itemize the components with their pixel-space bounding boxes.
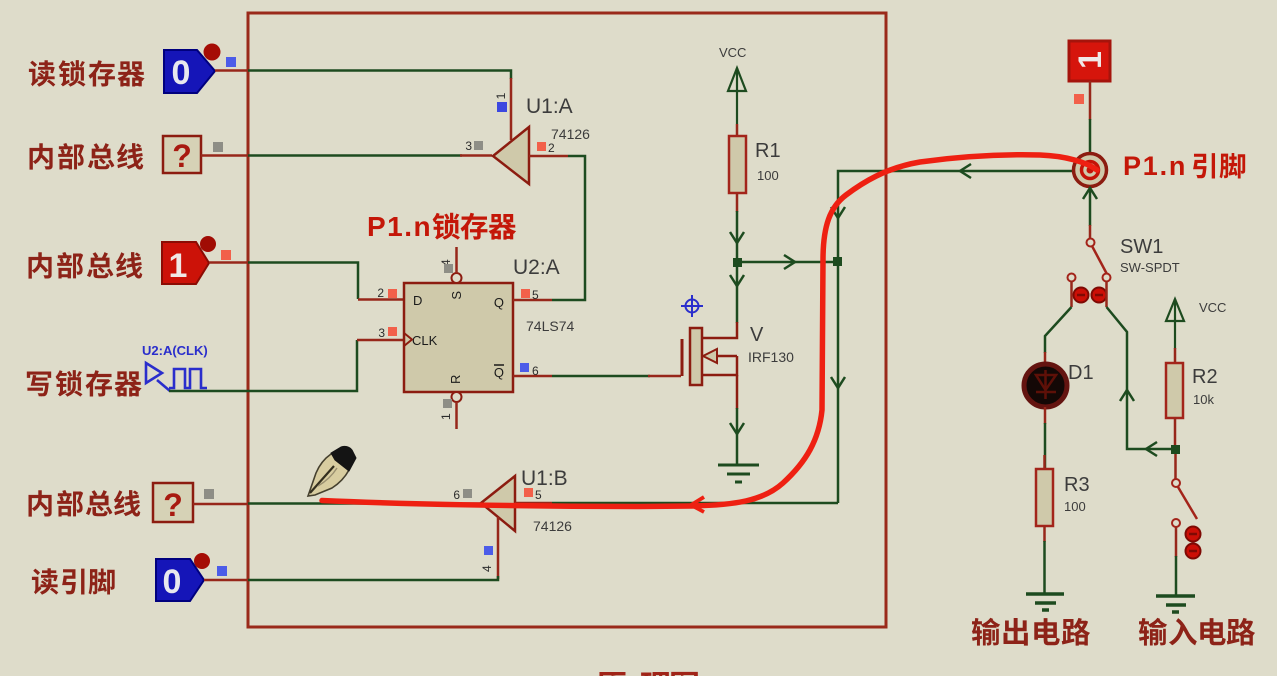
- svg-text:Q: Q: [494, 295, 504, 310]
- flow arrow left into junction: [1146, 442, 1157, 456]
- logic state source 1 (internal bus): [162, 242, 209, 285]
- wire: R3 to ground: [1043, 541, 1046, 594]
- logic state source 0 (read pin): [156, 559, 204, 601]
- red indicator dot right: [1092, 288, 1107, 303]
- svg-text:R: R: [448, 375, 463, 384]
- U2:A CLK pin stub: [357, 339, 404, 342]
- red indicator dot lower: [1186, 544, 1201, 559]
- wire: frame to U1:A input: [248, 154, 462, 157]
- body arrow line: [716, 355, 737, 358]
- label 读引脚: [32, 568, 115, 594]
- S pin stub: [455, 247, 458, 273]
- D flip-flop U2:A body: [404, 283, 513, 392]
- svg-text:100: 100: [757, 168, 779, 183]
- svg-text:P1.n: P1.n: [1123, 151, 1187, 181]
- red indicator circle: [204, 44, 221, 61]
- pin 1 gray square: [443, 399, 452, 408]
- pen cursor icon: [308, 446, 356, 496]
- SW1 pole stub: [1089, 225, 1092, 238]
- R2 top stub: [1174, 348, 1177, 363]
- U1:A enable pin stub: [510, 78, 513, 140]
- label 内部总线 (top): [29, 143, 143, 170]
- wire: U1:B input from pin line: [552, 502, 838, 505]
- wire: frame to U1:A enable corner: [248, 71, 511, 80]
- gray marker square: [204, 489, 214, 499]
- resistor R3: [1036, 469, 1053, 526]
- bus state box ? (bottom): [153, 483, 193, 523]
- svg-text:?: ?: [163, 487, 183, 523]
- wire: R1 to drain node: [736, 211, 739, 323]
- svg-text:0: 0: [172, 54, 191, 92]
- label 写锁存器: [27, 370, 142, 396]
- svg-text:U2:A(CLK): U2:A(CLK): [142, 343, 208, 358]
- wire: LED to R3: [1044, 423, 1047, 469]
- svg-text:VCC: VCC: [719, 45, 746, 60]
- wire: U1:A output down to U2:A Q: [552, 156, 585, 300]
- svg-text:3: 3: [465, 139, 472, 153]
- wire: to ground: [1175, 556, 1178, 596]
- R2 bottom stub: [1174, 418, 1177, 446]
- svg-text:74126: 74126: [533, 518, 572, 534]
- wire: source to ground: [736, 408, 739, 464]
- drain stub: [702, 322, 737, 338]
- title P1.n锁存器: [367, 211, 516, 242]
- U1:B enable pin 4 stub: [497, 517, 500, 579]
- lower switch stub: [1174, 454, 1177, 479]
- SW1 throw contact right: [1103, 274, 1111, 282]
- pin 5 orange square: [524, 488, 533, 497]
- red highlight annotation curve: [322, 155, 1097, 507]
- R pin stub: [455, 402, 458, 429]
- svg-text:IRF130: IRF130: [748, 349, 794, 365]
- svg-text:1: 1: [439, 413, 453, 420]
- gray marker square: [213, 142, 223, 152]
- flow arrow up on input branch: [1120, 390, 1134, 401]
- svg-text:VCC: VCC: [1199, 300, 1226, 315]
- pin 2 orange square: [537, 142, 546, 151]
- svg-text:Q: Q: [494, 365, 504, 380]
- svg-text:S: S: [449, 291, 464, 300]
- source stub: [702, 356, 737, 375]
- ground (MOSFET source): [718, 465, 759, 482]
- svg-text:R2: R2: [1192, 366, 1218, 388]
- pin 4 gray square: [444, 264, 453, 273]
- svg-text:D1: D1: [1068, 362, 1094, 384]
- node junction: [733, 258, 742, 267]
- orange marker square: [221, 250, 231, 260]
- wire: Q-bar to MOSFET gate: [552, 375, 650, 378]
- pin 5 red square: [521, 289, 530, 298]
- red indicator dot upper: [1186, 527, 1201, 542]
- label 读锁存器: [29, 60, 145, 87]
- throw contact stub down: [1175, 527, 1178, 557]
- gate bar: [681, 339, 684, 376]
- source down stub: [736, 375, 739, 409]
- junction square on pin line: [833, 257, 842, 266]
- svg-text:0: 0: [163, 563, 182, 601]
- svg-text:U2:A: U2:A: [513, 256, 560, 279]
- red indicator dot left: [1074, 288, 1089, 303]
- tri-state buffer U1:B: [481, 476, 515, 531]
- MOSFET V IRF130: [682, 322, 737, 409]
- logic state source 0 (read latch): [164, 50, 215, 93]
- wire: state box to pin: [1089, 119, 1092, 153]
- pin 1 blue square: [497, 102, 507, 112]
- U1:A input pin stub: [460, 154, 492, 157]
- MOSFET gate stub: [648, 375, 681, 378]
- svg-text:U1:A: U1:A: [526, 95, 573, 118]
- wire: source stub to frame: [204, 579, 248, 582]
- resistor R1: [729, 136, 746, 193]
- wire: clock to U2:A CLK: [169, 340, 357, 391]
- svg-text:?: ?: [172, 138, 192, 174]
- flow arrow right: [784, 255, 795, 269]
- blue marker square: [226, 57, 236, 67]
- LED D1 top stub: [1044, 352, 1047, 364]
- R3 top stub: [1043, 455, 1046, 469]
- clock source symbol U2:A(CLK): [146, 363, 207, 391]
- U1:B input stub: [515, 502, 552, 505]
- ground (output circuit): [1026, 594, 1064, 610]
- svg-text:CLK: CLK: [412, 333, 438, 348]
- LED bottom stub: [1044, 407, 1047, 424]
- SW1 throw contact left: [1068, 274, 1076, 282]
- label P1.n引脚: [1123, 151, 1245, 181]
- state box stub: [1089, 81, 1092, 120]
- ground (input circuit): [1156, 596, 1195, 612]
- red arrowhead on annotation: [691, 497, 704, 512]
- junction square: [1171, 445, 1180, 454]
- lower switch throw contact: [1172, 519, 1180, 527]
- svg-text:R3: R3: [1064, 474, 1090, 496]
- wire: frame to U1:B enable: [248, 576, 498, 580]
- clock wedge: [404, 333, 412, 346]
- VCC power symbol (top): [728, 68, 746, 124]
- R3 bottom stub: [1043, 526, 1046, 542]
- bottom cut-off title 原理图: [597, 672, 698, 676]
- svg-text:1: 1: [1072, 51, 1108, 69]
- schematic outer frame box: [248, 13, 886, 627]
- channel body: [690, 328, 702, 385]
- wire: source1 stub to frame: [209, 261, 248, 264]
- svg-text:P1.n: P1.n: [367, 211, 432, 242]
- orange marker square: [1074, 94, 1084, 104]
- S set pin bubble: [452, 273, 462, 283]
- VCC power symbol (right): [1166, 299, 1184, 349]
- svg-text:5: 5: [535, 488, 542, 502]
- svg-text:74LS74: 74LS74: [526, 318, 574, 334]
- pin 6 blue square: [520, 363, 529, 372]
- label 输出电路: [972, 618, 1090, 646]
- label 输入电路: [1139, 618, 1255, 646]
- wire: node to pin line: [737, 261, 834, 264]
- svg-text:74126: 74126: [551, 126, 590, 142]
- blue marker square: [217, 566, 227, 576]
- svg-text:2: 2: [377, 286, 384, 300]
- blue origin marker: [681, 295, 703, 317]
- flow arrow down (upper): [831, 207, 845, 218]
- wire: right throw to input branch: [1107, 307, 1173, 449]
- svg-text:4: 4: [480, 565, 494, 572]
- svg-text:3: 3: [378, 326, 385, 340]
- wire below pin + up arrow: [1089, 187, 1092, 226]
- svg-text:1: 1: [169, 247, 188, 285]
- svg-text:SW1: SW1: [1120, 236, 1163, 258]
- pin 3 gray square: [474, 141, 483, 150]
- wire: ?box stub to frame: [193, 503, 248, 506]
- pin 4 blue square: [484, 546, 493, 555]
- pin 3 red square: [388, 327, 397, 336]
- flow arrow left (to bus): [960, 164, 971, 178]
- pin 2 red square: [388, 289, 397, 298]
- flow arrow down (lower): [831, 377, 845, 388]
- label 内部总线 (middle): [28, 252, 142, 279]
- LED D1: [1024, 364, 1067, 407]
- wire: ?box to frame: [201, 154, 248, 157]
- red indicator circle: [194, 553, 210, 569]
- lower switch pole contact: [1172, 479, 1180, 487]
- body arrowhead: [703, 349, 717, 363]
- svg-text:R1: R1: [755, 140, 781, 162]
- svg-text:U1:B: U1:B: [521, 467, 568, 490]
- dark red indicator circle: [200, 236, 216, 252]
- wire: frame to U1:B output: [248, 502, 462, 505]
- R1 bottom stub: [736, 193, 739, 212]
- bus state box ? (top): [163, 136, 201, 174]
- U1:B output stub (pin 6 side): [460, 502, 481, 505]
- svg-text:D: D: [413, 293, 422, 308]
- wire: source0 stub to frame: [215, 69, 248, 72]
- right throw stub down: [1105, 281, 1108, 307]
- svg-text:2: 2: [548, 141, 555, 155]
- Q-bar output stub pin 6: [513, 375, 552, 378]
- label 内部总线 (bottom): [28, 490, 140, 517]
- flow arrow down: [730, 232, 744, 243]
- svg-text:6: 6: [453, 488, 460, 502]
- wire: frame to U2:A D pin: [248, 263, 358, 300]
- flow arrow down: [730, 275, 744, 286]
- U1:A output stub: [529, 155, 568, 158]
- SW1 pole contact: [1087, 239, 1095, 247]
- red state box 1 (pin state): [1069, 41, 1110, 81]
- wire: left throw to LED branch: [1045, 307, 1072, 353]
- svg-text:SW-SPDT: SW-SPDT: [1120, 260, 1180, 275]
- resistor R2: [1166, 363, 1183, 418]
- svg-text:100: 100: [1064, 499, 1086, 514]
- lower switch lever: [1178, 487, 1197, 519]
- wire: long vertical pin line: [838, 171, 1073, 503]
- U2:A D pin stub: [358, 298, 404, 301]
- flow arrow up: [1083, 188, 1097, 199]
- tri-state buffer U1:A: [493, 127, 529, 184]
- Q output stub pin 5: [513, 299, 552, 302]
- flow arrow down: [730, 423, 744, 434]
- SW1 lever: [1092, 246, 1108, 276]
- svg-text:10k: 10k: [1193, 392, 1214, 407]
- pin 6 gray square: [463, 489, 472, 498]
- svg-text:V: V: [750, 324, 764, 346]
- svg-text:1: 1: [494, 92, 508, 99]
- R reset pin bubble: [452, 392, 462, 402]
- svg-text:5: 5: [532, 288, 539, 302]
- P1.n pin pad: [1074, 154, 1107, 187]
- left throw stub down: [1070, 281, 1073, 307]
- R1 top stub: [736, 124, 739, 136]
- svg-text:6: 6: [532, 364, 539, 378]
